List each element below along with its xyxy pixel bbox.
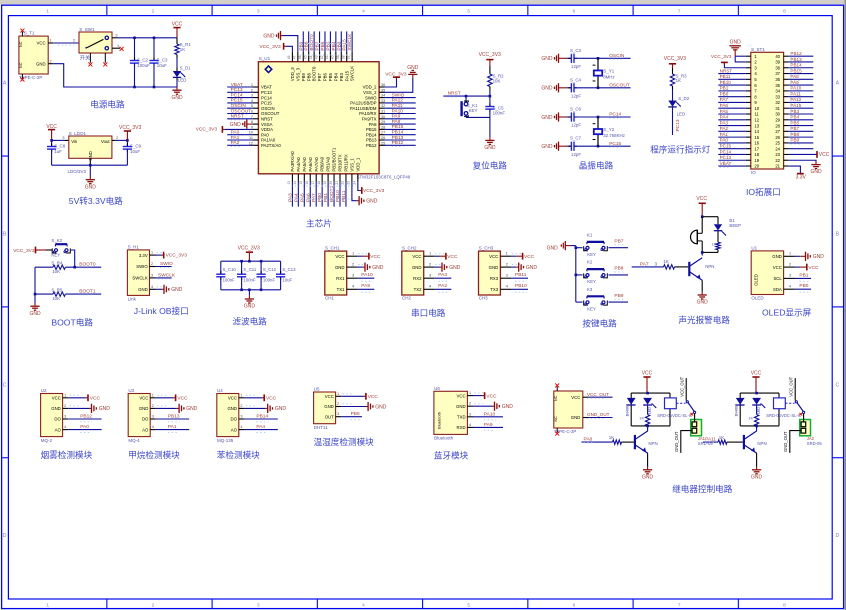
S_CH2 pin4 PA2 xyxy=(435,288,452,290)
svg-text:U6: U6 xyxy=(434,386,440,391)
svg-text:VCC: VCC xyxy=(808,265,819,271)
svg-text:PA0: PA0 xyxy=(80,424,89,430)
svg-text:S_D1: S_D1 xyxy=(180,65,192,70)
svg-text:19: 19 xyxy=(323,181,327,185)
svg-text:47: 47 xyxy=(293,55,297,59)
svg-text:GND: GND xyxy=(697,300,709,306)
wire bottom bus power circuit xyxy=(135,86,178,88)
svg-text:46: 46 xyxy=(298,55,302,59)
header right pin stubs and wires xyxy=(784,55,789,57)
switch pin 3 wire to top bus xyxy=(112,37,118,39)
wire button to BOOT0 net xyxy=(71,250,75,267)
capacitor S_C3 12pF xyxy=(567,57,572,59)
svg-text:PB11: PB11 xyxy=(515,272,527,278)
svg-text:PB9: PB9 xyxy=(614,293,623,299)
svg-text:1uF: 1uF xyxy=(54,149,62,154)
svg-text:VCC: VCC xyxy=(52,396,61,401)
LED S_D2 xyxy=(668,101,676,107)
svg-text:PB8: PB8 xyxy=(306,72,311,81)
svg-text:24: 24 xyxy=(775,146,780,151)
MCU top pins stubs numbers wires labels xyxy=(291,52,293,62)
svg-text:PA12: PA12 xyxy=(790,97,801,102)
svg-text:PB1: PB1 xyxy=(799,272,808,278)
svg-text:SWIO: SWIO xyxy=(392,92,405,98)
svg-text:40: 40 xyxy=(775,54,780,59)
svg-text:35: 35 xyxy=(381,88,385,92)
MCU VSS_3 to GND (pin 47) xyxy=(283,36,298,52)
svg-text:28: 28 xyxy=(381,125,385,129)
svg-text:PA8: PA8 xyxy=(392,119,401,125)
svg-text:GND: GND xyxy=(138,287,148,292)
svg-text:PA5: PA5 xyxy=(720,109,729,114)
OLED pin3 PB1 xyxy=(795,277,811,279)
S_CH1 pin stubs xyxy=(347,255,358,257)
svg-text:MQ-4: MQ-4 xyxy=(128,438,140,443)
svg-text:PB13: PB13 xyxy=(366,138,377,143)
svg-text:GND: GND xyxy=(484,145,496,151)
svg-text:NC: NC xyxy=(554,416,558,422)
svg-text:4: 4 xyxy=(64,425,66,429)
transistor NPN relay JA2 xyxy=(743,435,745,449)
svg-text:S_Y1: S_Y1 xyxy=(603,69,614,74)
svg-text:PB10: PB10 xyxy=(335,190,341,202)
T2 pin2 GND_OUT wire xyxy=(583,417,589,419)
svg-text:S_C2: S_C2 xyxy=(137,57,149,62)
flyback diode relay JA2 xyxy=(736,398,745,405)
svg-text:S_CH2: S_CH2 xyxy=(402,246,417,251)
svg-text:PB14: PB14 xyxy=(790,63,802,68)
svg-text:PB10: PB10 xyxy=(515,283,527,289)
svg-text:2: 2 xyxy=(789,262,791,266)
header pin 23 to VCC xyxy=(789,153,817,155)
svg-text:PB7: PB7 xyxy=(614,238,623,244)
svg-text:S_R5: S_R5 xyxy=(51,287,63,292)
svg-text:PA1: PA1 xyxy=(720,132,729,137)
svg-text:PB4: PB4 xyxy=(790,115,799,120)
svg-text:PA3: PA3 xyxy=(720,120,729,125)
svg-text:D: D xyxy=(3,533,7,539)
svg-text:45: 45 xyxy=(303,55,307,59)
wire key PB9 xyxy=(609,301,629,303)
U5 pin1 to VCC xyxy=(341,395,364,397)
relay switch JA1 xyxy=(676,402,685,404)
svg-text:DO: DO xyxy=(231,417,238,422)
svg-text:12pF: 12pF xyxy=(571,152,581,157)
svg-text:27: 27 xyxy=(381,131,385,135)
svg-text:1: 1 xyxy=(64,393,66,397)
svg-text:100uF: 100uF xyxy=(137,63,150,68)
svg-text:VCC: VCC xyxy=(90,396,101,402)
svg-text:PA4: PA4 xyxy=(720,115,729,120)
svg-text:苯检测模块: 苯检测模块 xyxy=(217,449,260,460)
base resistor 1K relay JA1 xyxy=(582,441,613,443)
svg-text:SRD-05: SRD-05 xyxy=(807,441,823,446)
svg-text:PA9: PA9 xyxy=(790,80,799,85)
svg-text:14: 14 xyxy=(754,129,759,134)
svg-text:PA12USB/DP: PA12USB/DP xyxy=(350,101,376,106)
svg-text:3: 3 xyxy=(469,412,471,416)
svg-text:PA1: PA1 xyxy=(168,424,177,430)
module U3 MQ-4 body xyxy=(128,394,150,437)
svg-text:1K: 1K xyxy=(663,259,668,264)
svg-text:2: 2 xyxy=(251,88,253,92)
svg-text:4: 4 xyxy=(362,602,365,608)
svg-text:S_C10: S_C10 xyxy=(223,267,237,272)
svg-text:PA11: PA11 xyxy=(705,436,716,442)
svg-text:43: 43 xyxy=(314,55,318,59)
svg-text:NC: NC xyxy=(19,41,23,47)
wire VCC from T1 to switch xyxy=(53,42,79,44)
svg-text:PB14: PB14 xyxy=(392,130,404,136)
svg-text:PB10: PB10 xyxy=(720,80,732,85)
svg-text:VCC: VCC xyxy=(37,41,46,46)
J-Link pin stubs and numbers xyxy=(150,254,156,256)
svg-text:S_C6: S_C6 xyxy=(570,107,582,112)
svg-text:PB0: PB0 xyxy=(799,283,808,289)
U5 pin2 to GND xyxy=(341,406,365,408)
svg-text:PA1/A0: PA1/A0 xyxy=(261,138,276,143)
svg-text:GND: GND xyxy=(244,304,256,310)
svg-text:S_K2: S_K2 xyxy=(51,238,62,243)
svg-text:2: 2 xyxy=(64,404,66,408)
svg-text:1: 1 xyxy=(789,252,791,256)
emitter to GND relay JA1 xyxy=(647,453,649,466)
svg-text:3: 3 xyxy=(257,602,260,608)
svg-text:S_CH1: S_CH1 xyxy=(325,246,340,251)
svg-text:C: C xyxy=(3,382,7,388)
svg-text:SWIO: SWIO xyxy=(365,95,377,100)
svg-text:S_C8: S_C8 xyxy=(54,143,66,148)
svg-text:GND: GND xyxy=(571,415,581,420)
U3 signal PB13 xyxy=(156,418,189,420)
svg-text:PA2: PA2 xyxy=(438,283,447,289)
ground filter xyxy=(248,290,250,296)
emitter to GND relay JA2 xyxy=(756,453,758,466)
svg-text:PA2: PA2 xyxy=(231,140,240,146)
svg-text:LDO/3V3: LDO/3V3 xyxy=(68,169,87,174)
svg-text:PA1: PA1 xyxy=(231,135,240,141)
resistor 1K alarm branch xyxy=(716,242,720,250)
J-Link pin2 SWIO wire xyxy=(156,266,172,268)
svg-text:GND: GND xyxy=(171,95,183,101)
svg-text:温湿度检测模块: 温湿度检测模块 xyxy=(314,436,375,447)
MCU left pins stubs numbers wires labels xyxy=(252,86,258,88)
svg-text:U2: U2 xyxy=(41,388,47,393)
OLED pin4 PB0 xyxy=(795,288,811,290)
svg-text:PC13: PC13 xyxy=(675,119,681,131)
svg-text:OLED显示屏: OLED显示屏 xyxy=(762,308,812,318)
svg-text:PB3: PB3 xyxy=(790,109,799,114)
U2 pin2 to GND xyxy=(68,407,89,409)
svg-text:S_C9: S_C9 xyxy=(130,143,142,148)
svg-text:VSS_3: VSS_3 xyxy=(295,67,300,81)
svg-text:STM32F103C8T6_LQFP48: STM32F103C8T6_LQFP48 xyxy=(357,174,411,179)
capacitor S_C12 100nF xyxy=(260,261,262,274)
svg-text:PA3: PA3 xyxy=(287,193,293,202)
svg-text:SWCLK: SWCLK xyxy=(347,33,353,51)
svg-text:44: 44 xyxy=(309,55,313,59)
indicator LED relay JA1 xyxy=(643,398,652,405)
svg-text:VCC_3V3: VCC_3V3 xyxy=(259,44,281,50)
header pin 22 to GND xyxy=(789,160,816,161)
wire Vout to VCC_3V3 xyxy=(116,139,128,141)
svg-text:S_R4: S_R4 xyxy=(51,260,63,265)
svg-text:23: 23 xyxy=(347,181,351,185)
svg-text:22: 22 xyxy=(775,158,780,163)
wire net OSCOUT xyxy=(598,87,631,89)
svg-text:PB3: PB3 xyxy=(336,41,342,50)
svg-text:晶振电路: 晶振电路 xyxy=(579,160,614,171)
svg-text:CH2: CH2 xyxy=(402,295,411,300)
MCU VSSA ground (pin 8) xyxy=(249,123,252,125)
svg-text:PA10: PA10 xyxy=(392,108,404,114)
svg-text:3: 3 xyxy=(789,274,791,278)
U3 pin stubs xyxy=(150,397,156,399)
svg-text:GND: GND xyxy=(139,406,149,411)
svg-text:OSCIN: OSCIN xyxy=(261,106,275,111)
svg-text:IO拓展口: IO拓展口 xyxy=(746,186,781,197)
svg-text:PB5: PB5 xyxy=(790,120,799,125)
svg-text:18: 18 xyxy=(754,152,759,157)
svg-text:PB0: PB0 xyxy=(720,91,729,96)
svg-text:4: 4 xyxy=(152,425,154,429)
svg-text:SRD-05VDC-SL-C: SRD-05VDC-SL-C xyxy=(657,413,692,418)
relay coil JA1 xyxy=(665,398,677,409)
svg-text:GND: GND xyxy=(36,61,46,66)
svg-text:OSCOUT: OSCOUT xyxy=(231,108,252,114)
svg-text:PB3: PB3 xyxy=(339,72,344,81)
svg-text:VSSA: VSSA xyxy=(261,122,273,127)
svg-text:BOOT0: BOOT0 xyxy=(79,262,96,268)
svg-text:VCC: VCC xyxy=(773,265,782,270)
svg-text:3: 3 xyxy=(251,94,253,98)
svg-text:VCC_OUT: VCC_OUT xyxy=(788,376,793,396)
svg-text:100nF: 100nF xyxy=(223,277,236,282)
svg-text:PA9/TX: PA9/TX xyxy=(362,117,377,122)
svg-text:PA10: PA10 xyxy=(484,411,496,417)
svg-text:PA4: PA4 xyxy=(293,193,299,202)
svg-text:1K: 1K xyxy=(676,78,681,83)
svg-text:34: 34 xyxy=(775,89,780,94)
svg-text:PA4/A0: PA4/A0 xyxy=(296,157,301,172)
wire BOOT1 xyxy=(65,293,101,295)
svg-text:PA0: PA0 xyxy=(231,130,240,136)
svg-text:PA3RX/A0: PA3RX/A0 xyxy=(290,151,295,172)
svg-text:TX3: TX3 xyxy=(490,287,498,292)
capacitor S_C11 100nF xyxy=(241,261,243,274)
svg-text:OSCIN: OSCIN xyxy=(609,53,625,59)
svg-text:Link: Link xyxy=(128,297,137,302)
svg-text:RX3: RX3 xyxy=(490,276,499,281)
svg-text:PA4: PA4 xyxy=(256,424,265,430)
svg-text:GND_OUT: GND_OUT xyxy=(783,431,788,452)
svg-text:RXD: RXD xyxy=(457,425,466,430)
svg-text:SWIO: SWIO xyxy=(160,261,173,267)
svg-text:PA8: PA8 xyxy=(584,436,593,442)
svg-text:VDD_1: VDD_1 xyxy=(355,157,360,171)
button S_K2 KEY xyxy=(52,248,56,253)
svg-text:41: 41 xyxy=(325,55,329,59)
svg-text:PC13: PC13 xyxy=(231,87,243,93)
svg-text:VBAT: VBAT xyxy=(261,85,272,90)
svg-text:S_Y2: S_Y2 xyxy=(603,127,614,132)
svg-text:滤波电路: 滤波电路 xyxy=(232,316,267,327)
wire NPN emitter to GND alarm xyxy=(701,280,703,292)
T2 pin1 VCC_OUT wire xyxy=(583,396,589,398)
svg-text:KEY: KEY xyxy=(469,108,478,113)
svg-text:VBAT: VBAT xyxy=(720,161,732,166)
svg-text:S_ST1: S_ST1 xyxy=(751,47,765,52)
capacitor S_C8 1uF xyxy=(51,140,53,146)
svg-text:2: 2 xyxy=(116,136,118,140)
svg-text:1: 1 xyxy=(240,393,242,397)
MCU U1 STM32F103C8T6 body xyxy=(258,62,379,174)
svg-text:PB8: PB8 xyxy=(614,266,623,272)
svg-text:VCC: VCC xyxy=(172,22,183,28)
svg-text:3.3V: 3.3V xyxy=(139,253,148,258)
svg-text:PB11: PB11 xyxy=(341,190,347,202)
svg-text:25: 25 xyxy=(381,141,385,145)
svg-text:PC13: PC13 xyxy=(261,90,272,95)
svg-text:36: 36 xyxy=(381,83,385,87)
svg-text:PC14: PC14 xyxy=(609,112,621,118)
svg-text:PB1: PB1 xyxy=(720,86,729,91)
svg-text:Vin: Vin xyxy=(71,139,78,144)
svg-text:VCC: VCC xyxy=(819,152,830,158)
svg-text:S_D2: S_D2 xyxy=(678,96,690,101)
svg-text:6: 6 xyxy=(251,110,253,114)
svg-text:PB13: PB13 xyxy=(392,135,404,141)
S_T1 NC stub bottom with no-connect X xyxy=(21,74,23,79)
svg-text:3: 3 xyxy=(240,415,242,419)
svg-text:GND: GND xyxy=(751,474,763,480)
U2 pin1 to VCC xyxy=(68,397,86,399)
svg-text:GND: GND xyxy=(541,56,553,62)
svg-text:GND: GND xyxy=(275,406,287,412)
S_CH2 pin stubs xyxy=(424,255,435,257)
svg-text:30: 30 xyxy=(381,115,385,119)
svg-text:1: 1 xyxy=(46,602,49,608)
svg-text:B: B xyxy=(836,231,840,237)
MCU bottom pins stubs numbers wires labels xyxy=(291,174,293,182)
U5 pin stubs xyxy=(336,395,342,397)
svg-text:38: 38 xyxy=(342,55,346,59)
svg-text:AO: AO xyxy=(55,427,62,432)
svg-text:S_C13: S_C13 xyxy=(282,267,296,272)
svg-text:PB8: PB8 xyxy=(790,132,799,137)
svg-text:4: 4 xyxy=(469,423,471,427)
svg-text:NRST: NRST xyxy=(231,114,244,120)
svg-text:20: 20 xyxy=(329,181,333,185)
svg-text:Bluetooth: Bluetooth xyxy=(434,436,454,441)
svg-text:6: 6 xyxy=(573,602,576,608)
svg-text:声光报警电路: 声光报警电路 xyxy=(678,314,730,325)
svg-text:PA9: PA9 xyxy=(484,422,493,428)
svg-text:PB1/A0: PB1/A0 xyxy=(326,156,331,171)
svg-text:GND: GND xyxy=(227,406,237,411)
U4 pin2 to GND xyxy=(244,407,265,409)
svg-text:31: 31 xyxy=(381,110,385,114)
svg-text:PB7: PB7 xyxy=(317,72,322,81)
svg-text:NC: NC xyxy=(554,395,558,401)
svg-text:U1: U1 xyxy=(751,246,757,251)
connector T2 TYPE-C-2P output xyxy=(554,391,583,428)
S_CH1 pin3 PA10 xyxy=(358,277,375,279)
svg-text:12pF: 12pF xyxy=(571,94,581,99)
svg-text:2: 2 xyxy=(469,402,471,406)
svg-text:PB6: PB6 xyxy=(320,41,326,50)
svg-text:BOOT0: BOOT0 xyxy=(309,34,315,51)
svg-text:PB15: PB15 xyxy=(366,127,377,132)
svg-text:PB0: PB0 xyxy=(317,193,323,202)
header pin 21 to 3.3V xyxy=(789,166,801,174)
MCU VSS_1 to GND (pin 23) xyxy=(352,182,357,201)
resistor 1K under LED relay JA2 xyxy=(756,405,758,414)
svg-text:1: 1 xyxy=(251,83,253,87)
svg-text:SWCLK: SWCLK xyxy=(350,66,355,81)
svg-text:PB5: PB5 xyxy=(328,72,333,81)
wire reset bottom bus xyxy=(466,116,490,118)
svg-text:PC15: PC15 xyxy=(720,143,732,148)
svg-text:GND: GND xyxy=(642,474,654,480)
svg-text:K1: K1 xyxy=(587,233,593,238)
svg-text:14: 14 xyxy=(293,181,297,185)
svg-text:KEY: KEY xyxy=(587,279,596,284)
svg-text:PB7: PB7 xyxy=(790,126,799,131)
svg-text:BOOT电路: BOOT电路 xyxy=(51,316,93,327)
svg-text:PB13: PB13 xyxy=(790,57,802,62)
GND_OUT wire relay JA2 xyxy=(790,431,801,453)
svg-text:VCC: VCC xyxy=(447,254,458,260)
svg-text:PA9: PA9 xyxy=(392,114,401,120)
svg-text:主芯片: 主芯片 xyxy=(306,218,332,229)
svg-text:PA15: PA15 xyxy=(790,103,801,108)
svg-text:GND: GND xyxy=(85,184,97,190)
svg-text:电源电路: 电源电路 xyxy=(90,99,125,110)
svg-text:AO: AO xyxy=(142,427,149,432)
svg-text:VCC: VCC xyxy=(751,371,762,377)
svg-text:PB8: PB8 xyxy=(304,41,310,50)
svg-text:27: 27 xyxy=(775,129,780,134)
svg-text:NRST: NRST xyxy=(261,117,273,122)
J-Link pin3 SWCLK wire xyxy=(156,277,172,279)
module U5 DHT11 body xyxy=(314,392,336,424)
svg-text:PA0: PA0 xyxy=(261,132,269,137)
svg-text:S_CH3: S_CH3 xyxy=(479,246,494,251)
svg-text:SWCLK: SWCLK xyxy=(132,276,147,281)
ground for S_C4 xyxy=(559,87,562,89)
svg-text:VDDA: VDDA xyxy=(261,127,273,132)
svg-text:U5: U5 xyxy=(314,387,320,392)
switch to terminal wire JA1 xyxy=(694,414,696,422)
svg-text:甲烷检测模块: 甲烷检测模块 xyxy=(128,449,180,460)
svg-text:11: 11 xyxy=(249,136,253,140)
svg-text:33: 33 xyxy=(775,94,780,99)
svg-text:VCC_3V3: VCC_3V3 xyxy=(479,52,501,58)
svg-text:34: 34 xyxy=(381,94,385,98)
relay JA2 wire loop xyxy=(740,392,779,394)
svg-text:S_U1: S_U1 xyxy=(259,56,271,61)
J-Link pin1 to VCC_3V3 xyxy=(156,254,162,256)
svg-text:IO: IO xyxy=(751,170,756,175)
U5 signal PB6 xyxy=(341,416,362,418)
svg-text:1: 1 xyxy=(46,8,49,14)
svg-text:S_C12: S_C12 xyxy=(263,267,277,272)
svg-text:GND: GND xyxy=(541,144,553,150)
svg-text:VCC_OUT: VCC_OUT xyxy=(679,376,684,396)
svg-text:PA6/A0: PA6/A0 xyxy=(308,157,313,172)
S_T1 pin 2 stub xyxy=(48,63,53,65)
